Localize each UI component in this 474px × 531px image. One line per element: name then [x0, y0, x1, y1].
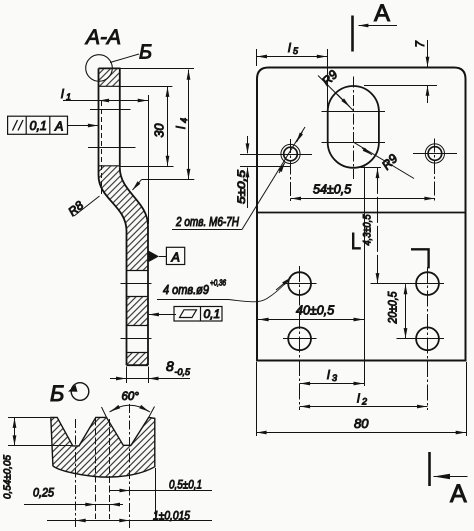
dimension 0.25: [24, 486, 123, 505]
hole feature lines in bar: [88, 110, 136, 148]
svg-text:Б: Б: [139, 42, 152, 64]
svg-text:А: А: [171, 251, 180, 265]
parallelism tolerance frame 0.1 A: [8, 116, 98, 134]
hole top-left: [283, 272, 317, 295]
svg-text:1±0,015: 1±0,015: [153, 509, 190, 523]
dimension 40 +-0.5: [258, 304, 364, 320]
detail callout circle B: [86, 54, 139, 81]
dimension 0.54 +-0.05: [2, 418, 73, 500]
lower bar hole band 1: [121, 271, 152, 297]
dimension l1: [61, 87, 148, 102]
groove slope extension lines: [102, 407, 155, 418]
dimension 5 +-0.5: [236, 136, 290, 208]
hatched top block of section bar: [99, 68, 121, 86]
svg-text:30: 30: [153, 124, 167, 138]
serrated profile body: [51, 417, 155, 477]
svg-text:4 отв.ø9: 4 отв.ø9: [163, 282, 209, 297]
plate outline: [257, 68, 466, 361]
slot bottom extension right: [361, 167, 382, 169]
svg-text:А-А: А-А: [84, 26, 121, 49]
left M6 hole: [268, 139, 312, 202]
svg-text:-0,5: -0,5: [175, 367, 192, 377]
svg-text:0,1: 0,1: [204, 307, 221, 321]
hole bottom-left: [283, 327, 317, 350]
svg-text:l: l: [288, 41, 291, 55]
lower bar continuous edges: [127, 270, 149, 365]
svg-text:l: l: [174, 126, 188, 129]
slot obround: [328, 86, 379, 168]
slot centerlines: [322, 77, 386, 180]
extension line right of l1: [148, 95, 150, 224]
corner bracket right: [411, 249, 429, 268]
datum flag A: [148, 247, 184, 264]
svg-text:R9: R9: [379, 151, 400, 172]
right holes centerline: [427, 267, 429, 410]
svg-text:80: 80: [354, 416, 369, 431]
hole bottom-right: [397, 327, 445, 350]
svg-text:40±0,5: 40±0,5: [296, 304, 334, 318]
label R9 bottom: [353, 142, 414, 178]
label 4 holes dia 9: [157, 278, 291, 302]
groove centerline 1: [75, 419, 77, 528]
dimension 4.3 +-0.5: [362, 168, 378, 283]
lower bar hole band 2: [121, 326, 152, 353]
svg-text:20±0,5: 20±0,5: [388, 291, 400, 324]
svg-text:8: 8: [166, 358, 174, 374]
svg-text:l: l: [357, 392, 360, 406]
detail label B with rotation symbol: [50, 381, 89, 406]
svg-text:60°: 60°: [122, 391, 140, 403]
svg-text:0,1: 0,1: [30, 119, 47, 133]
svg-text:7: 7: [415, 41, 427, 48]
label R9 top: [318, 67, 353, 110]
section title A-A: [84, 26, 121, 49]
plate bend line: [257, 212, 466, 214]
groove centerline 2: [129, 404, 131, 528]
dimension 8 -0.5: [110, 358, 191, 383]
svg-text:1: 1: [66, 92, 71, 102]
svg-text:l: l: [61, 87, 64, 101]
svg-text:5±0,5: 5±0,5: [236, 169, 248, 204]
top edge extension line: [121, 68, 195, 70]
dimension l3: [300, 368, 364, 384]
hatched S-bend region: [99, 166, 149, 270]
hole axis dash line: [101, 101, 103, 197]
label R8: [65, 196, 99, 219]
right edge extension line: [155, 468, 157, 516]
svg-text:А: А: [54, 120, 63, 134]
section cut mark A top: [353, 0, 398, 52]
svg-text:4: 4: [179, 118, 189, 123]
svg-text:А: А: [374, 0, 390, 27]
label 2 holes M6-7H: [172, 127, 305, 230]
dimension 30: [121, 87, 174, 167]
svg-text:4,3±0,5: 4,3±0,5: [362, 214, 374, 246]
lower bar hatched band: [127, 296, 149, 325]
lower bar bottom block: [127, 352, 149, 365]
dimension 54 +-0.5: [291, 183, 435, 199]
left holes centerline: [299, 266, 301, 410]
right M6 hole: [413, 139, 457, 202]
dimension 80: [256, 362, 467, 436]
dimension l5: [257, 41, 328, 113]
section bar outline: [99, 68, 121, 175]
svg-text:2 отв. М6-7Н: 2 отв. М6-7Н: [175, 215, 240, 229]
l4 bottom extension and bend leader: [133, 180, 195, 191]
flatness tolerance frame 0.1: [149, 307, 222, 322]
svg-text:0,5±0,1: 0,5±0,1: [169, 478, 202, 492]
svg-text:А: А: [450, 480, 467, 508]
svg-text:l: l: [327, 368, 330, 382]
dimension l4: [174, 70, 189, 179]
svg-text:3: 3: [332, 373, 337, 383]
label B: [139, 42, 152, 64]
dimension 1 +-0.015: [47, 509, 212, 523]
svg-text:R9: R9: [319, 67, 340, 88]
svg-text:Б: Б: [50, 381, 64, 406]
dimension 20 +-0.5: [388, 284, 406, 338]
svg-text:+0,36: +0,36: [210, 278, 226, 288]
svg-text:54±0,5: 54±0,5: [313, 183, 351, 197]
dimension l2: [300, 392, 428, 407]
svg-text:0,25: 0,25: [33, 486, 54, 500]
reference line below slot: [364, 167, 366, 387]
crest extension lines: [96, 419, 110, 520]
corner bracket left: [353, 233, 361, 249]
svg-text:5: 5: [293, 46, 299, 56]
angle dimension 60 deg: [110, 391, 151, 412]
dimension 7: [364, 40, 437, 103]
svg-text:0,54±0,05: 0,54±0,05: [2, 455, 14, 499]
hole top-right: [371, 272, 445, 295]
dimension 0.5 +-0.1: [110, 478, 212, 492]
svg-text:2: 2: [361, 397, 367, 407]
section cut mark A bottom: [430, 452, 468, 508]
